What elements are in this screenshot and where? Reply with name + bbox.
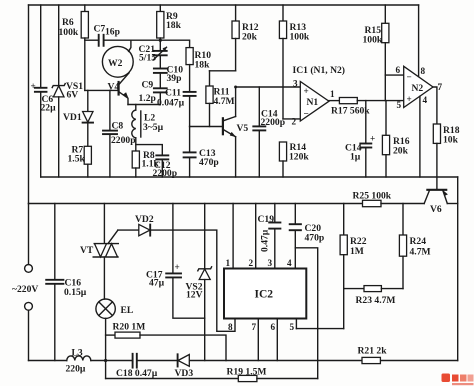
diode VD2 [118,229,139,231]
resistor R6 [84,5,86,12]
wire VT gate [108,230,118,244]
wire VD2 cathode to IC2 pin8 [150,230,235,331]
wire emitter line [128,104,160,106]
resistor R12 [235,5,237,21]
svg-text:C19: C19 [258,214,275,225]
svg-text:C9: C9 [142,80,154,91]
svg-text:5/15: 5/15 [139,53,156,64]
wire IC2 pin2 [255,204,257,269]
trimmer capacitor C21 [159,40,161,51]
svg-text:R25 100k: R25 100k [353,191,392,202]
svg-text:R19 1.5M: R19 1.5M [227,367,267,378]
svg-text:R24: R24 [410,236,427,247]
svg-text:+: + [31,81,36,91]
svg-text:VD2: VD2 [135,214,154,225]
wire V5 emitter [235,137,237,177]
wire top supply rail [29,4,419,6]
svg-text:8: 8 [228,322,233,332]
wire bottom mains line [29,360,67,362]
inductor L2 [135,105,137,111]
resistor R9 [159,5,161,12]
wire IC2 pin1 [232,204,234,269]
junction node [159,39,162,42]
transistor V4 [117,82,119,95]
svg-text:3: 3 [268,258,273,268]
svg-text:0.47µ: 0.47µ [260,229,271,252]
svg-text:39p: 39p [167,73,182,84]
svg-text:IC2: IC2 [255,289,274,301]
terminal lower [25,302,33,310]
diode VD3 [177,354,179,366]
svg-text:1.2p: 1.2p [139,93,156,104]
op-amp U1 N2 [404,66,433,107]
svg-text:V5: V5 [237,123,249,134]
wire V5 base line [190,126,223,128]
svg-text:22µ: 22µ [41,103,57,114]
svg-text:IC1 (N1, N2): IC1 (N1, N2) [293,65,346,76]
wire lower gate line [105,361,107,379]
op-amp U1 N1 [300,82,329,122]
svg-text:100k: 100k [290,32,310,43]
lamp EL [96,299,115,318]
wire N2 pin4 [419,96,421,177]
svg-text:220µ: 220µ [66,364,86,375]
resistor R25 [363,200,382,206]
svg-text:−: − [304,109,309,119]
svg-text:R21 2k: R21 2k [358,346,388,357]
svg-text:4.7M: 4.7M [214,96,235,107]
capacitor C18 [132,354,134,368]
svg-text:2: 2 [292,117,297,127]
svg-text:VD3: VD3 [175,368,194,379]
capacitor C16 [54,204,56,280]
svg-text:100k: 100k [59,27,79,38]
svg-text:6: 6 [396,65,401,75]
svg-text:V6: V6 [430,204,442,215]
svg-text:R20 1M: R20 1M [113,322,146,333]
svg-text:10k: 10k [443,135,459,146]
wire ground rail A [41,176,458,178]
capacitor C14 2200p [258,87,260,126]
capacitor C20 [294,204,296,225]
svg-text:0.047µ: 0.047µ [157,98,185,109]
svg-text:4.7M: 4.7M [410,247,431,258]
svg-text:8: 8 [421,66,426,76]
wire pin5 node line [296,328,343,330]
svg-text:+: + [304,86,309,96]
svg-text:470p: 470p [305,233,325,244]
resistor R18 [433,87,437,124]
wire right edge vertical [457,177,459,361]
watermark [442,374,474,386]
wire N1 pin3 line [236,86,301,88]
wire switched rail C left segment [29,203,363,205]
diode VD1 [87,90,89,111]
svg-text:2200p: 2200p [111,135,136,146]
resistor R10 [160,40,189,47]
svg-text:C7: C7 [94,24,106,35]
wire C20 jog to pin5 node [295,248,317,379]
resistor R19 [238,375,257,381]
capacitor C7 [85,39,99,41]
IC IC2 [224,269,306,319]
wire N1 pin2 line [283,118,300,120]
resistor R15 [384,5,386,23]
svg-text:7: 7 [252,322,257,332]
resistor R23 [344,288,364,290]
oscillator coil W2 [102,46,133,77]
svg-text:6V: 6V [67,90,79,101]
svg-text:N2: N2 [412,83,424,94]
svg-text:18k: 18k [166,20,182,31]
svg-text:2200p: 2200p [153,168,178,179]
svg-text:C18 0.47µ: C18 0.47µ [116,368,158,379]
svg-text:4: 4 [423,95,428,105]
svg-text:N1: N1 [307,97,319,108]
svg-text:120k: 120k [289,152,309,163]
svg-text:VD1: VD1 [63,112,82,123]
transistor V6 [427,189,446,191]
svg-text:2: 2 [249,258,254,268]
svg-text:R23 4.7M: R23 4.7M [356,295,396,306]
svg-text:16p: 16p [105,27,120,38]
wire N2 pin8 [418,5,420,77]
resistor R17 [329,100,339,102]
wire left mains line upper [28,5,30,204]
wire rail C to right edge [447,203,457,205]
svg-text:1µ: 1µ [350,152,361,163]
svg-text:1: 1 [226,258,231,268]
svg-text:20k: 20k [393,146,409,157]
capacitor C6 [40,5,42,88]
resistor R16 [385,101,387,136]
capacitor C19 [274,204,276,223]
svg-text:~220V: ~220V [12,284,38,295]
svg-text:100k: 100k [363,35,383,46]
inductor L3 [67,356,91,361]
svg-text:C8: C8 [112,121,124,132]
svg-text:R17 560k: R17 560k [331,106,370,117]
resistor R22 [343,204,345,236]
svg-text:VT: VT [80,245,94,256]
svg-text:0.15µ: 0.15µ [64,287,87,298]
resistor R11 [209,71,211,86]
svg-text:1M: 1M [350,246,364,257]
transistor V5 [222,118,224,134]
capacitor C13 [189,127,191,153]
wire EL bottom [105,318,107,360]
svg-text:6: 6 [271,322,276,332]
wire R22 bottom to pin5 node [343,289,345,329]
wire IC2 pin5 [295,319,297,329]
svg-text:470p: 470p [199,157,219,168]
wire rail C right of R25 [381,203,424,205]
svg-text:W2: W2 [108,58,123,69]
svg-text:5: 5 [397,100,402,110]
svg-text:7: 7 [438,82,443,92]
zener diode VS1 [58,5,60,85]
resistor R20 [106,334,115,336]
resistor R13 [282,5,284,21]
resistor R7 [84,146,91,164]
capacitor C8 [109,90,111,130]
wire IC2 pin7 [257,319,259,361]
capacitor C10 [154,68,167,70]
svg-text:−: − [407,72,412,82]
zener diode VS2 [204,204,206,269]
svg-text:1.5k: 1.5k [68,154,86,165]
capacitor C14 1u [365,101,367,144]
svg-text:3: 3 [293,79,298,89]
triac VT [103,204,105,244]
resistor R24 [402,204,404,236]
capacitor C17 [172,204,174,274]
capacitor C9 [154,87,167,89]
svg-text:+: + [407,94,412,104]
svg-text:EL: EL [121,305,134,316]
wire N2 pin6 line [385,74,403,76]
svg-text:L3: L3 [72,348,83,359]
svg-text:3~5µ: 3~5µ [143,122,164,133]
svg-text:5: 5 [290,322,295,332]
svg-text:20k: 20k [242,32,258,43]
resistor R14 [279,142,286,161]
resistor R8 [132,151,139,168]
svg-text:+: + [175,262,180,272]
capacitor C11 [184,91,196,93]
resistor R21 [362,357,380,363]
wire IC2 pin6 [276,319,278,361]
terminal upper [28,204,30,265]
svg-text:47µ: 47µ [149,278,165,289]
svg-text:18k: 18k [195,60,211,71]
svg-text:+: + [370,134,375,144]
capacitor C12 [136,145,163,156]
wire V5 collector [235,87,237,117]
svg-text:4: 4 [287,258,292,268]
svg-text:2200p: 2200p [261,117,286,128]
svg-text:1: 1 [330,89,335,99]
svg-text:12V: 12V [186,290,203,301]
